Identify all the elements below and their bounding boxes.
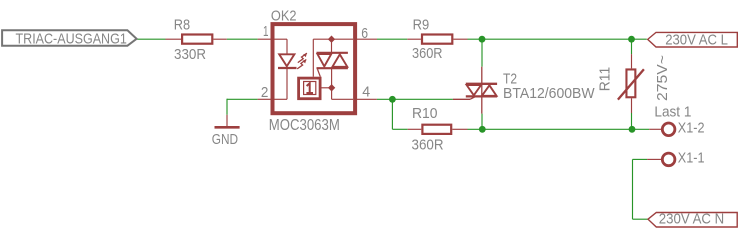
svg-text:275V~: 275V~ (654, 55, 671, 101)
svg-text:330R: 330R (174, 46, 206, 63)
svg-text:230V AC L: 230V AC L (665, 31, 728, 48)
svg-text:360R: 360R (412, 45, 443, 62)
svg-text:2: 2 (261, 84, 269, 101)
svg-text:X1-1: X1-1 (678, 150, 705, 167)
svg-text:OK2: OK2 (271, 8, 297, 25)
svg-text:230V AC N: 230V AC N (659, 211, 724, 228)
svg-text:360R: 360R (412, 137, 444, 154)
svg-text:Last 1: Last 1 (654, 104, 691, 121)
svg-text:TRIAC-AUSGANG1: TRIAC-AUSGANG1 (16, 31, 127, 48)
svg-text:MOC3063M: MOC3063M (269, 117, 340, 134)
svg-text:6: 6 (361, 25, 368, 42)
svg-text:X1-2: X1-2 (678, 120, 705, 137)
svg-text:1: 1 (263, 23, 269, 40)
svg-text:R11: R11 (596, 67, 613, 92)
svg-text:R9: R9 (413, 16, 430, 33)
svg-text:BTA12/600BW: BTA12/600BW (503, 85, 595, 102)
svg-text:R10: R10 (412, 105, 438, 122)
svg-text:GND: GND (212, 131, 238, 148)
svg-text:R8: R8 (174, 16, 190, 33)
svg-text:4: 4 (362, 83, 370, 100)
